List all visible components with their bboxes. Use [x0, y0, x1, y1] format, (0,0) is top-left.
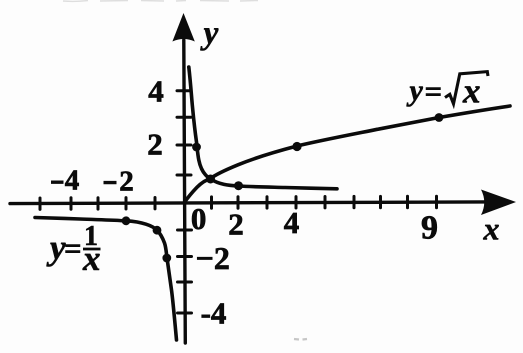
svg-text:x: x — [82, 239, 101, 278]
svg-text:2: 2 — [119, 166, 134, 198]
svg-text:−2: −2 — [196, 240, 230, 276]
svg-text:=: = — [425, 74, 443, 109]
svg-text:y: y — [407, 74, 424, 107]
svg-text:2: 2 — [228, 207, 244, 242]
svg-text:4: 4 — [148, 74, 164, 109]
svg-text:y: y — [200, 16, 219, 52]
svg-text:-4: -4 — [201, 296, 227, 331]
svg-text:9: 9 — [421, 210, 438, 247]
svg-text:=: = — [64, 231, 82, 266]
svg-text:x: x — [483, 211, 500, 247]
svg-text:4: 4 — [284, 205, 300, 240]
svg-text:2: 2 — [147, 127, 163, 162]
svg-text:4: 4 — [65, 165, 80, 197]
svg-text:0: 0 — [191, 201, 207, 236]
svg-text:x: x — [462, 72, 481, 111]
svg-text:y: y — [46, 228, 66, 267]
